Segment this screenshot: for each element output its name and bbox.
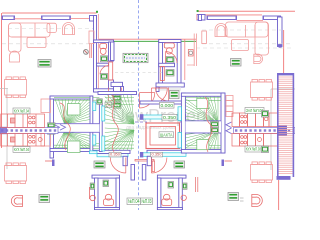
junction block kitchen right	[278, 126, 287, 136]
svg-text:ЗАЛ №П.03: ЗАЛ №П.03	[246, 108, 263, 114]
armchair left	[10, 51, 20, 62]
label wardrobe left	[94, 161, 105, 168]
svg-text:0.350: 0.350	[110, 153, 120, 157]
symbol circle right bottom	[181, 195, 186, 200]
wire red courtyard edge right	[196, 14, 198, 20]
cabinet boxes beside stair lower	[41, 132, 51, 146]
wire gray dashed line y44 right	[202, 43, 293, 45]
wall right bath right	[177, 43, 181, 84]
node right facade corner dot	[197, 10, 199, 12]
stair walk line red left	[60, 103, 70, 150]
wall left bath right upper	[109, 42, 114, 61]
wire red right edge lower	[278, 180, 280, 210]
junction block kitchen band left end	[0, 127, 7, 134]
wire wall face red left-a	[15, 18, 42, 20]
stair flight left main fan lower	[55, 132, 90, 149]
toilet left hall	[104, 194, 114, 205]
wire red right hall pipes	[196, 177, 198, 192]
wall left-stair bottom2	[92, 150, 130, 153]
label kitchen left upper	[13, 108, 30, 114]
wall right outer corner	[278, 17, 283, 48]
wire corridor rails right stair	[185, 121, 221, 133]
shaft red box	[146, 123, 180, 149]
wall right bath top	[159, 40, 181, 43]
wall left-stair left	[50, 96, 54, 158]
counter right top hob	[232, 113, 248, 127]
table dining upper-right	[251, 79, 273, 100]
stair flight left second fan upper	[105, 95, 134, 125]
wall left bath divider	[97, 63, 109, 66]
landing right lower	[197, 139, 209, 149]
wall right-entry horizontal	[157, 175, 186, 178]
label left hall tiny	[90, 183, 95, 189]
svg-text:0.000: 0.000	[161, 103, 174, 108]
symbol CO box right	[188, 50, 193, 57]
stair flight left main fan upper	[55, 99, 90, 124]
door arc hall top-right	[152, 88, 168, 104]
wall left-stair bottom	[50, 149, 93, 152]
wall laundry bottom right stub	[156, 87, 159, 92]
svg-text:КУХ №П.04: КУХ №П.04	[14, 147, 29, 152]
step strip cyan right-stair lower	[178, 133, 181, 148]
stair flight right fan upper	[185, 96, 218, 123]
wall left-hall left vertical	[95, 178, 99, 210]
landing right upper	[197, 98, 209, 108]
step strip cyan left-gap upper	[93, 102, 96, 111]
label right WC	[166, 57, 174, 64]
door arc right bath	[166, 52, 178, 64]
wall right-stair bottom	[181, 150, 224, 154]
wire red right edge upper	[283, 30, 285, 73]
wall left bath bottom	[94, 89, 114, 92]
wall right-stair left	[181, 93, 185, 153]
wire gray dashed line y28	[8, 28, 93, 30]
step strip cyan left-stair lower	[102, 136, 105, 151]
wire red stub lintel right	[222, 160, 233, 167]
wall kitchen band left	[0, 128, 58, 134]
arrow stair direction left	[54, 125, 66, 131]
stair walk line red left2	[112, 95, 118, 152]
counter row left bottom	[1, 134, 45, 147]
landing left lower	[68, 141, 81, 153]
step strip cyan upper	[140, 114, 186, 120]
wire red courtyard line right bath	[184, 40, 186, 81]
label hall bottom left	[127, 198, 141, 205]
wall right hall top	[147, 150, 186, 153]
wire green fence line	[99, 40, 196, 42]
wire facade top-left red line	[2, 12, 97, 14]
label kitchen right upper	[245, 108, 264, 115]
label shaft	[159, 132, 174, 138]
counter row left top	[1, 114, 45, 128]
table side left	[47, 23, 56, 32]
label below right bath	[170, 91, 180, 99]
label room left living	[38, 60, 51, 68]
hatch kitchen band left	[1, 129, 57, 131]
label hall mid-left B	[113, 102, 121, 108]
radiator right wall	[202, 31, 207, 44]
table coffee left	[27, 38, 46, 48]
svg-text:ШАХТА: ШАХТА	[160, 132, 173, 137]
wall laundry left	[111, 42, 115, 61]
symbol circle left bottom	[90, 195, 95, 200]
wall right-unit left wall vertical	[199, 15, 202, 21]
wall right-stair top	[181, 93, 224, 96]
sofa L-shaped right	[226, 22, 269, 55]
stair steps right straight upper	[186, 98, 221, 101]
wall right-entry stub	[147, 156, 151, 165]
radiator left wall	[89, 31, 94, 44]
label right edge upper	[262, 111, 269, 118]
counter right bottom boxes	[232, 134, 278, 147]
wall right-stair right	[221, 93, 225, 153]
label hall bottom right	[141, 198, 153, 205]
symbol circle-x left living	[84, 50, 89, 55]
wire gray dashed line y44 left	[2, 43, 93, 45]
wall laundry bottom left	[111, 82, 124, 91]
label kitchen right lower	[245, 146, 262, 153]
armchair lower-right	[252, 195, 263, 207]
stair flight right fan lower	[185, 131, 218, 150]
sofa L-shaped left	[9, 23, 51, 52]
hatch kitchen band right	[235, 129, 293, 131]
wall right-hall left vertical	[157, 178, 161, 210]
wire wall face red right-a	[237, 20, 264, 22]
label left gap red	[105, 102, 112, 108]
wire facade top-right red line upper	[197, 10, 295, 12]
wire gray dashed laundry	[115, 72, 163, 74]
wall kitchen band right	[234, 128, 296, 134]
toilet right hall	[162, 194, 172, 205]
wall right bath left	[159, 43, 163, 84]
label right hall wide	[174, 161, 185, 168]
step strip cyan left-exit2	[97, 154, 128, 157]
wall left-unit top jog	[90, 16, 97, 22]
label left bath	[101, 74, 108, 80]
wall left-entry bottom	[95, 208, 120, 210]
stair steps left straight lower	[54, 144, 99, 149]
table dining lower-left	[5, 163, 27, 184]
wall left party wall	[131, 165, 135, 181]
svg-text:№П.03: №П.03	[142, 199, 152, 205]
toilet right WC	[164, 43, 174, 54]
wall left bath top	[94, 40, 114, 43]
wall left second-region left	[99, 103, 102, 152]
fireplace arch left	[63, 23, 75, 35]
wire red shaft bottom ledge	[135, 159, 155, 171]
stair flight left second fan lower	[105, 128, 134, 151]
step strip cyan lower	[140, 152, 186, 157]
label left hall	[103, 180, 109, 187]
arrow stair direction right	[226, 122, 232, 134]
label hall mid-left A	[113, 95, 121, 101]
svg-text:0.350: 0.350	[152, 153, 162, 157]
wall left-stair top2	[98, 92, 137, 95]
toilet left WC	[100, 44, 107, 55]
wire gray axis corner left	[0, 89, 8, 170]
corridor floor left stair	[54, 124, 100, 132]
window W2	[41, 16, 71, 21]
label right lower room	[228, 193, 239, 201]
label level upper hall	[160, 102, 175, 108]
wall right-unit top jog	[197, 15, 205, 21]
wall left-unit right wall vertical	[94, 16, 97, 93]
wire left boundary red line	[1, 13, 3, 148]
table coffee right	[232, 40, 249, 51]
wire gray axis corner right	[271, 89, 295, 170]
label left-stair exit	[109, 152, 121, 157]
stair walk line red right	[205, 97, 212, 152]
wall right bath divider	[159, 63, 175, 66]
step strip cyan left-stair upper	[102, 106, 105, 121]
label right edge lower	[262, 146, 269, 153]
label kitchen left lower	[13, 147, 30, 153]
svg-text:КУХ №П.04: КУХ №П.04	[14, 109, 29, 114]
node left facade corner dot	[96, 11, 98, 13]
wall left-entry stub	[123, 156, 127, 165]
label right bath	[166, 70, 174, 77]
label left gap green	[97, 99, 103, 105]
wall left-hall right vertical	[116, 178, 120, 210]
pipes left bath	[83, 44, 91, 58]
door arc left entry	[110, 158, 126, 174]
wire wall face red left-b	[70, 18, 89, 20]
step strip cyan right-stair upper	[178, 107, 181, 121]
svg-text:№П.04: №П.04	[128, 199, 140, 205]
label left WC	[101, 56, 108, 62]
cabinet boxes beside stair upper	[41, 99, 51, 113]
svg-text:КУХ №П.03: КУХ №П.03	[246, 147, 261, 153]
wall left-stair right	[90, 96, 93, 152]
ladder exterior stair	[277, 73, 295, 180]
wire facade top-right red line lower	[197, 14, 262, 16]
wire red stub lintel left	[45, 160, 55, 167]
wire purple dashed corridor right	[180, 121, 188, 123]
window W4 corner	[263, 16, 281, 21]
label right hall	[168, 182, 174, 189]
label left lower room	[39, 195, 50, 203]
wall right-entry bottom	[157, 208, 182, 210]
wall left-stair top	[50, 96, 93, 99]
shading right bath threshold	[160, 87, 181, 91]
door arc laundry left	[109, 88, 122, 102]
wire red courtyard edge left	[97, 14, 99, 92]
step strip cyan left-exit	[90, 151, 98, 154]
label room right living	[231, 59, 242, 67]
landing left upper	[68, 104, 81, 116]
label left-stair lower	[48, 129, 56, 134]
symbol gray marks right	[240, 198, 244, 201]
svg-text:0.350: 0.350	[163, 115, 176, 120]
cabinet boxes above right stair	[226, 96, 233, 117]
label right-stair upper	[211, 122, 219, 128]
appliance washing machine	[123, 53, 148, 62]
wire red risers right	[194, 34, 196, 67]
step strip cyan left-gap lower	[93, 135, 96, 145]
label right-stair lower	[211, 128, 219, 134]
label right hall tiny	[183, 183, 188, 189]
window W1	[2, 16, 16, 21]
door arc hall top-left	[139, 93, 154, 108]
wire red fence line	[99, 38, 196, 40]
armchair right	[254, 54, 263, 63]
stair steps left straight upper	[54, 97, 99, 103]
stair steps right straight lower	[186, 146, 221, 149]
wall right party wall	[142, 165, 146, 181]
wall right bath bottom	[156, 83, 184, 87]
wall hall upper horizontal	[140, 101, 182, 104]
label on cyan upper	[162, 114, 177, 120]
label left-stair upper	[48, 123, 56, 128]
door arc laundry right	[155, 88, 168, 102]
wire red ledge right	[187, 64, 195, 66]
corridor floor right stair	[185, 121, 221, 133]
wire red left hall pipe	[89, 187, 91, 199]
door arc left bath	[100, 66, 109, 75]
fireplace arch right	[215, 24, 227, 37]
wire gray dashed line y48 right	[196, 47, 293, 49]
door arc right entry	[151, 158, 167, 174]
wall right-hall right vertical	[179, 178, 183, 210]
table dining upper-left	[5, 77, 27, 98]
wall left bath right lower	[109, 80, 114, 92]
armchair lower-left	[11, 195, 22, 206]
counter right top boxes	[248, 113, 278, 127]
label right-stair exit	[151, 152, 163, 157]
fixture right bath shower	[160, 67, 164, 81]
wire corridor rails left stair	[54, 124, 100, 133]
wire purple dashed corridor left	[135, 121, 147, 123]
wall left-entry horizontal	[92, 175, 120, 178]
fixture left bath shower	[109, 62, 113, 80]
window W3	[207, 16, 238, 21]
table dining lower-right	[251, 162, 273, 183]
wire gray dashed line y30 right	[202, 29, 282, 31]
stair treads second fan rows	[105, 98, 134, 149]
wire blue dashed centerline	[138, 0, 140, 210]
